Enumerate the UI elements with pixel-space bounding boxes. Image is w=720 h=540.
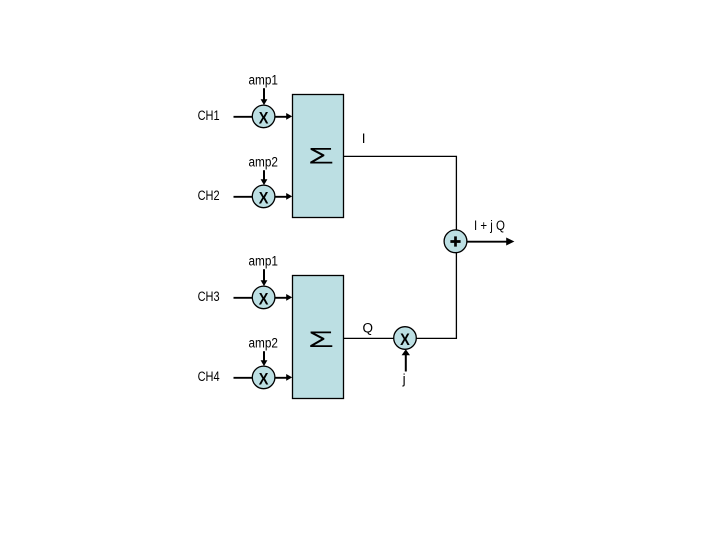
wire amp1 arrow into multiplier X1 [261, 88, 268, 105]
wire amp2 arrow into multiplier X2 [261, 170, 268, 185]
svg-text:j: j [402, 371, 406, 386]
svg-text:X: X [259, 110, 269, 128]
svg-text:CH2: CH2 [198, 188, 220, 203]
wire CH2 to multiplier X2 [234, 196, 253, 198]
svg-text:CH1: CH1 [198, 108, 220, 123]
svg-text:I: I [362, 131, 366, 146]
multiplier X2 [252, 185, 275, 208]
svg-text:X: X [259, 190, 269, 208]
svg-text:Q: Q [363, 320, 374, 335]
svg-text:CH3: CH3 [198, 289, 220, 304]
svg-text:amp1: amp1 [249, 72, 279, 87]
svg-text:Σ: Σ [308, 145, 334, 169]
wire multiplier X4 to summer U2 [275, 374, 292, 381]
wire CH3 to multiplier X3 [234, 297, 253, 299]
wire I from summer U1 to adder [344, 156, 457, 230]
wire CH4 to multiplier X4 [234, 377, 253, 379]
wire j arrow into multiplier Xj [402, 349, 410, 371]
svg-text:X: X [259, 371, 269, 389]
svg-text:X: X [259, 291, 269, 309]
wire amp2 arrow into multiplier X4 [261, 351, 268, 366]
svg-text:X: X [400, 331, 410, 349]
wire output I + j Q arrow [467, 238, 514, 246]
wire amp1 arrow into multiplier X3 [261, 269, 268, 286]
wire CH1 to multiplier X1 [234, 116, 253, 118]
svg-text:amp2: amp2 [249, 335, 279, 350]
multiplier Xj [394, 327, 417, 350]
adder (plus circle) [444, 230, 467, 253]
wire Q from summer U2 to multiplier Xj [344, 337, 394, 339]
wire multiplier X3 to summer U2 [275, 294, 292, 301]
multiplier X1 [252, 105, 275, 128]
wire adder down to Q junction and left to multiplier Xj [417, 253, 457, 339]
multiplier X3 [252, 286, 275, 309]
svg-text:amp2: amp2 [249, 154, 279, 169]
summer U2 (bottom sigma block) [293, 276, 344, 399]
wire multiplier X2 to summer U1 [275, 193, 292, 200]
summer U1 (top sigma block) [293, 95, 344, 218]
multiplier X4 [252, 366, 275, 389]
wire multiplier X1 to summer U1 [275, 113, 292, 120]
svg-text:CH4: CH4 [198, 369, 220, 384]
svg-text:I + j Q: I + j Q [474, 218, 505, 233]
svg-text:Σ: Σ [308, 328, 334, 352]
svg-text:amp1: amp1 [249, 253, 279, 268]
